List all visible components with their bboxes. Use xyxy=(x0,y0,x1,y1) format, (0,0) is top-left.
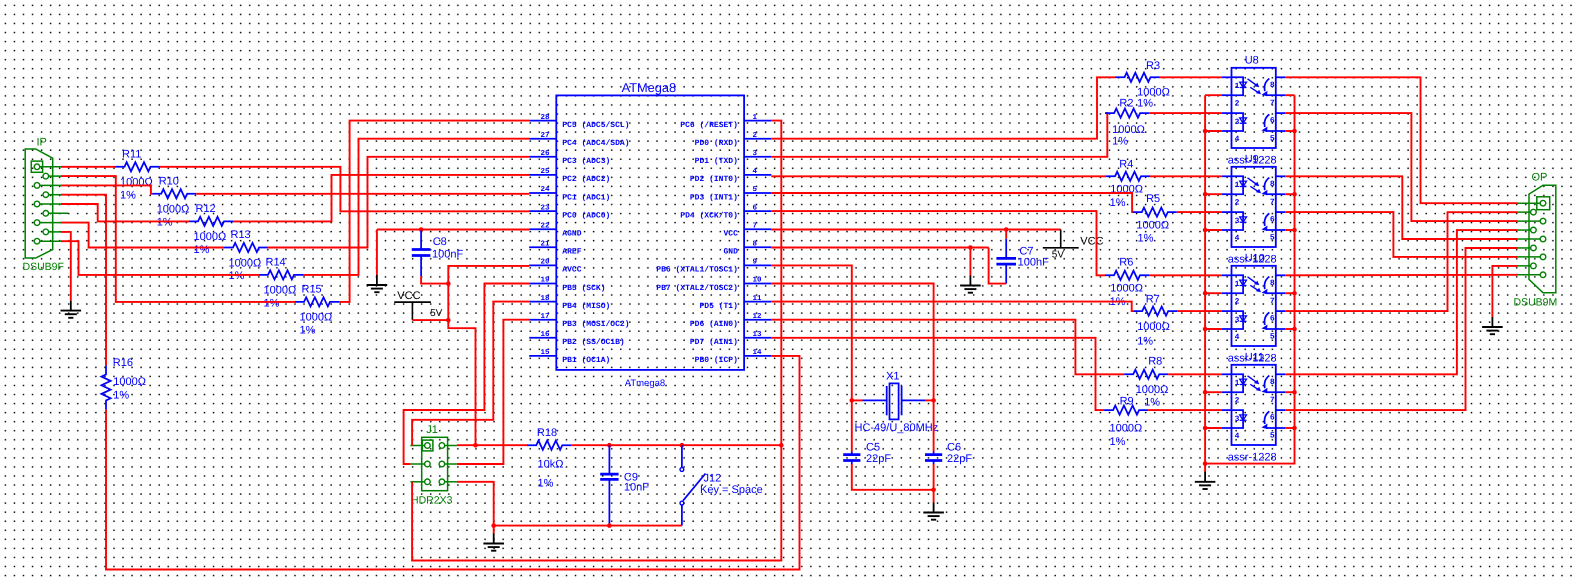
svg-text:8: 8 xyxy=(1270,279,1275,288)
svg-text:7: 7 xyxy=(1270,99,1275,108)
opto-isolator U11 assr-1228 xyxy=(1232,365,1276,445)
svg-text:3: 3 xyxy=(1235,118,1240,127)
wire R18 right to RESET vertical xyxy=(571,444,781,446)
crystal X1 xyxy=(863,399,887,401)
node VCC junction xyxy=(446,318,451,323)
svg-text:AREF: AREF xyxy=(562,248,581,257)
svg-text:IP: IP xyxy=(37,136,47,148)
svg-text:1000Ω: 1000Ω xyxy=(1110,283,1143,295)
resistor R15 xyxy=(295,297,339,306)
wire X1 left down to C5 xyxy=(851,400,853,451)
svg-text:1%: 1% xyxy=(1144,397,1160,409)
svg-text:21: 21 xyxy=(540,240,550,249)
svg-text:PB7 (XTAL2/TOSC2): PB7 (XTAL2/TOSC2) xyxy=(656,284,738,293)
svg-text:1000Ω: 1000Ω xyxy=(1112,124,1145,136)
wire R9 to U11 pin3 xyxy=(1148,409,1222,411)
resistor R2 xyxy=(1105,109,1149,118)
svg-text:11: 11 xyxy=(753,295,763,303)
svg-text:R2: R2 xyxy=(1119,98,1133,110)
wire ground row stub down xyxy=(493,526,495,534)
svg-text:13: 13 xyxy=(753,330,763,339)
resistor R14 xyxy=(259,270,303,279)
svg-text:PC1 (ADC1): PC1 (ADC1) xyxy=(562,193,610,202)
wire ground row under J1/C9/J12 xyxy=(494,525,682,527)
wire R11 to PC0 pin23 xyxy=(160,167,530,212)
op-amp U1 ATMega8 IC body and pins xyxy=(556,95,744,370)
node source bus tap xyxy=(1292,390,1297,395)
svg-text:4: 4 xyxy=(753,168,758,176)
node C7 top junction xyxy=(1004,227,1009,232)
svg-text:PD0 (RXD): PD0 (RXD) xyxy=(695,139,738,148)
svg-text:1%: 1% xyxy=(113,389,129,401)
ground below J1 area xyxy=(493,534,495,544)
svg-text:R4: R4 xyxy=(1119,159,1133,171)
svg-text:16: 16 xyxy=(540,330,550,339)
svg-text:20: 20 xyxy=(540,258,550,267)
wire GND tap down xyxy=(969,248,971,277)
wire VCC stub to junction xyxy=(412,319,448,321)
svg-text:C5: C5 xyxy=(866,442,880,454)
ground below opto bus xyxy=(1204,472,1206,482)
connector J? DSUB9F (IP) xyxy=(25,149,53,258)
svg-text:18: 18 xyxy=(540,294,550,303)
svg-text:PD1 (TXD): PD1 (TXD) xyxy=(695,157,738,166)
svg-text:PB0 (ICP): PB0 (ICP) xyxy=(695,356,738,365)
resistor R11 xyxy=(116,162,160,171)
svg-text:24: 24 xyxy=(540,185,550,194)
svg-text:4: 4 xyxy=(1235,333,1240,342)
wire DSUB pin2 to R15 xyxy=(61,176,295,302)
node cathode bus tap2 xyxy=(1203,228,1208,233)
power VCC 5V left symbol xyxy=(394,301,431,303)
svg-text:PC2 (ADC2): PC2 (ADC2) xyxy=(562,175,610,184)
ground below AGND xyxy=(376,275,378,285)
wire U10 pin6 to DSUB9M pin2 xyxy=(1285,212,1517,311)
svg-text:AVCC: AVCC xyxy=(562,266,581,275)
svg-text:ATMega8: ATMega8 xyxy=(622,80,677,95)
svg-text:26: 26 xyxy=(540,149,550,158)
svg-text:R5: R5 xyxy=(1146,193,1160,205)
svg-text:7: 7 xyxy=(753,222,758,230)
wire PD2 pin4 to R4 xyxy=(771,175,1106,177)
wire R6 to U10 pin1 xyxy=(1149,274,1222,276)
svg-text:22: 22 xyxy=(540,221,550,230)
svg-text:28: 28 xyxy=(540,113,550,122)
svg-text:PD6 (AIN0): PD6 (AIN0) xyxy=(690,320,738,329)
connector DSUB9M (OP) xyxy=(1529,185,1556,293)
wire XTAL1 pin9 to X1 xyxy=(771,265,852,400)
svg-text:5V: 5V xyxy=(430,308,443,319)
wire opto source bus xyxy=(1205,95,1294,463)
resistor R13 xyxy=(224,243,268,252)
svg-text:100nF: 100nF xyxy=(432,249,463,261)
capacitor C6 xyxy=(933,452,935,455)
svg-text:2: 2 xyxy=(1235,199,1240,208)
wire X1 right down to C6 xyxy=(933,400,935,451)
wire R8 to U11 pin1 xyxy=(1168,373,1222,375)
svg-text:5: 5 xyxy=(1270,135,1275,144)
svg-text:PD2 (INT0): PD2 (INT0) xyxy=(690,175,738,184)
svg-text:8: 8 xyxy=(1270,378,1275,387)
connector J1 HDR2X3 xyxy=(422,437,448,490)
svg-text:3: 3 xyxy=(1235,415,1240,424)
svg-text:10: 10 xyxy=(753,276,763,285)
node C9 top junction xyxy=(607,443,612,448)
wire PD3 pin5 to R5 xyxy=(771,193,1133,212)
svg-text:R13: R13 xyxy=(231,229,251,241)
svg-text:PC6 (/RESET): PC6 (/RESET) xyxy=(680,121,738,130)
node AGND-C8 junction xyxy=(419,227,424,232)
svg-text:1000Ω: 1000Ω xyxy=(120,177,153,189)
svg-text:6: 6 xyxy=(1270,414,1275,423)
wire PC6 pin1 to RESET net xyxy=(412,121,781,561)
resistor R6 xyxy=(1105,271,1149,280)
wire R2 to U8 pin3 xyxy=(1149,112,1222,114)
svg-text:PB5 (SCK): PB5 (SCK) xyxy=(562,284,605,293)
svg-text:R6: R6 xyxy=(1119,257,1133,269)
svg-text:15: 15 xyxy=(540,349,550,357)
svg-text:AGND: AGND xyxy=(562,230,581,239)
svg-text:9: 9 xyxy=(753,258,758,267)
capacitor C5 xyxy=(851,452,853,455)
resistor R12 xyxy=(189,217,233,226)
node crystal gnd junction xyxy=(931,488,936,493)
resistor R8 xyxy=(1124,370,1168,379)
wire DSUB9M pin8 to ground xyxy=(1492,266,1517,318)
wire J1 pin1 to PB4 pin18 xyxy=(412,302,529,446)
svg-text:1000Ω: 1000Ω xyxy=(264,285,297,297)
svg-text:4: 4 xyxy=(1235,234,1240,243)
svg-text:1%: 1% xyxy=(1137,335,1153,347)
svg-text:23: 23 xyxy=(540,203,550,212)
wire U10 pin8 to DSUB9M pin9 xyxy=(1285,274,1517,277)
svg-text:10nF: 10nF xyxy=(624,482,649,494)
wire C6 bottom xyxy=(933,464,935,490)
wire R10 to PC1 pin24 xyxy=(196,193,529,195)
wire U8 pin6 to DSUB9M pin3 xyxy=(1285,113,1517,221)
svg-text:PB4 (MISO): PB4 (MISO) xyxy=(562,302,610,311)
wire DSUB pin9 to R14 xyxy=(61,241,259,275)
svg-text:PC5 (ADC5/SCL): PC5 (ADC5/SCL) xyxy=(562,121,629,130)
svg-text:assr-1228: assr-1228 xyxy=(1228,452,1277,464)
svg-text:R15: R15 xyxy=(302,283,322,295)
svg-text:PB6 (XTAL1/TOSC1): PB6 (XTAL1/TOSC1) xyxy=(656,266,738,275)
svg-text:2: 2 xyxy=(753,131,758,140)
svg-text:100nF: 100nF xyxy=(1018,257,1049,269)
svg-text:22pF: 22pF xyxy=(866,453,891,465)
svg-text:5: 5 xyxy=(753,186,758,194)
svg-text:1%: 1% xyxy=(264,297,280,309)
wire GND pin8 row xyxy=(771,247,988,249)
wire R18 left lead xyxy=(476,444,529,446)
svg-text:7: 7 xyxy=(1270,396,1275,405)
svg-text:U9: U9 xyxy=(1245,154,1259,166)
wire DSUB pin5 to R12 xyxy=(61,204,189,221)
ground below DSUB9F xyxy=(70,301,72,311)
svg-text:VCC: VCC xyxy=(1080,236,1103,248)
svg-text:6: 6 xyxy=(1270,315,1275,324)
svg-text:1%: 1% xyxy=(120,189,136,201)
wire J1 pin4 to PB3 pin17 xyxy=(457,320,529,464)
svg-text:U8: U8 xyxy=(1245,55,1259,67)
svg-text:PB1 (OC1A): PB1 (OC1A) xyxy=(562,356,610,365)
svg-text:VCC: VCC xyxy=(397,290,420,302)
wire R12 to PC2 pin25 xyxy=(233,175,529,222)
wire PD5 pin11 to R7 xyxy=(771,302,1133,312)
svg-text:2: 2 xyxy=(1235,298,1240,307)
svg-text:1000Ω: 1000Ω xyxy=(157,204,190,216)
capacitor C8 xyxy=(420,231,422,250)
svg-text:R10: R10 xyxy=(159,175,179,187)
svg-text:J12: J12 xyxy=(704,473,722,485)
wire U9 pin8 to DSUB9M pin5 xyxy=(1285,176,1517,239)
wire PD6 pin12 to R8 xyxy=(771,320,1124,375)
svg-text:R16: R16 xyxy=(113,357,133,369)
svg-text:6: 6 xyxy=(1270,216,1275,225)
svg-text:R3: R3 xyxy=(1146,60,1160,72)
resistor R5 xyxy=(1133,208,1177,217)
svg-text:PC0 (ADC0): PC0 (ADC0) xyxy=(562,211,610,220)
node source bus tap2 xyxy=(1292,129,1297,134)
svg-text:PC3 (ADC3): PC3 (ADC3) xyxy=(562,157,610,166)
svg-text:DSUB9F: DSUB9F xyxy=(23,261,64,273)
svg-text:PB3 (MOSI/OC2): PB3 (MOSI/OC2) xyxy=(562,320,629,329)
wire R15 to PC5 pin28 xyxy=(339,121,529,302)
node ground row left junction xyxy=(491,523,496,528)
svg-text:GND: GND xyxy=(723,248,738,257)
wire J1 pin2 to VCC junction xyxy=(457,444,476,446)
svg-text:1000Ω: 1000Ω xyxy=(1136,220,1169,232)
node source bus tap2 xyxy=(1292,228,1297,233)
svg-text:5: 5 xyxy=(1270,234,1275,243)
svg-text:14: 14 xyxy=(753,349,763,357)
svg-text:1000Ω: 1000Ω xyxy=(1137,321,1170,333)
svg-text:7: 7 xyxy=(1270,297,1275,306)
ground right of ATMega xyxy=(969,276,971,286)
svg-text:1%: 1% xyxy=(1112,136,1128,148)
power VCC 5V right symbol xyxy=(1043,247,1079,249)
svg-text:PC4 (ADC4/SDA): PC4 (ADC4/SDA) xyxy=(562,139,629,148)
node cathode bus tap xyxy=(1203,192,1208,197)
svg-text:J1: J1 xyxy=(426,424,438,436)
svg-text:1%: 1% xyxy=(538,477,554,489)
svg-text:1: 1 xyxy=(1235,379,1240,388)
wire VCC pin7 row xyxy=(771,229,1060,231)
resistor R3 xyxy=(1116,73,1160,82)
svg-text:R8: R8 xyxy=(1148,355,1162,367)
svg-text:27: 27 xyxy=(540,131,549,140)
wire C5 bottom to gnd row xyxy=(852,464,934,490)
wire R14 to PC4 pin27 xyxy=(303,139,529,275)
svg-text:4: 4 xyxy=(1235,135,1240,144)
wire U8 pin8 to DSUB9M pin1 xyxy=(1285,77,1517,203)
svg-text:17: 17 xyxy=(540,313,549,321)
svg-text:5V: 5V xyxy=(1052,250,1065,261)
svg-text:R12: R12 xyxy=(196,203,216,215)
svg-text:3: 3 xyxy=(753,149,758,158)
node cathode bus tap2 xyxy=(1203,426,1208,431)
wire R7 to U10 pin3 xyxy=(1177,310,1222,312)
svg-text:22pF: 22pF xyxy=(947,453,972,465)
node J12 top junction xyxy=(680,443,685,448)
svg-text:6: 6 xyxy=(1270,117,1275,126)
svg-text:1%: 1% xyxy=(300,324,316,336)
svg-text:8: 8 xyxy=(1270,81,1275,90)
svg-text:1000Ω: 1000Ω xyxy=(229,257,262,269)
resistor R18 xyxy=(527,441,571,450)
wire R16 to bottom rail to PB0 pin14 xyxy=(106,356,800,570)
svg-text:25: 25 xyxy=(540,167,550,176)
wire AGND to ground xyxy=(376,230,378,276)
svg-text:PD5 (T1): PD5 (T1) xyxy=(699,302,737,311)
svg-text:1%: 1% xyxy=(1138,232,1154,244)
svg-text:1%: 1% xyxy=(1110,436,1126,448)
svg-text:HC-49/U_80MHz: HC-49/U_80MHz xyxy=(855,422,939,434)
svg-text:1: 1 xyxy=(753,114,758,122)
opto-isolator U8 assr-1228 xyxy=(1232,68,1276,148)
wire C8 bottom to AVCC rail xyxy=(421,276,448,283)
switch J12 xyxy=(681,445,683,467)
node cathode bus tap2 xyxy=(1203,129,1208,134)
svg-text:R18: R18 xyxy=(537,427,557,439)
svg-text:PD7 (AIN1): PD7 (AIN1) xyxy=(690,338,738,347)
capacitor C7 xyxy=(1005,230,1007,239)
wire VCC junction down to R18 row xyxy=(448,320,475,445)
svg-text:Key = Space: Key = Space xyxy=(700,484,763,496)
svg-text:VCC: VCC xyxy=(723,230,738,239)
svg-text:1%: 1% xyxy=(229,270,245,282)
svg-text:1000Ω: 1000Ω xyxy=(194,231,227,243)
wire R3 to U8 pin1 xyxy=(1160,76,1222,78)
svg-text:1: 1 xyxy=(1235,280,1240,289)
wire R13 to PC3 pin26 xyxy=(267,157,529,248)
capacitor C9 xyxy=(608,445,610,474)
svg-text:2: 2 xyxy=(1235,397,1240,406)
svg-text:10kΩ: 10kΩ xyxy=(538,459,564,471)
svg-text:1%: 1% xyxy=(1110,197,1126,209)
svg-text:C7: C7 xyxy=(1019,245,1033,257)
node C8-AVCC junction xyxy=(446,281,451,286)
wire opto cathode bus xyxy=(1204,95,1206,472)
svg-text:1: 1 xyxy=(1235,181,1240,190)
svg-text:R11: R11 xyxy=(122,148,141,160)
wire AGND pin22 row xyxy=(377,229,529,231)
node cathode bus tap xyxy=(1203,291,1208,296)
svg-text:1%: 1% xyxy=(194,244,210,256)
svg-text:R14: R14 xyxy=(266,256,286,268)
svg-text:1000Ω: 1000Ω xyxy=(300,312,333,324)
wire X1 left lead red xyxy=(852,399,863,401)
ground below DSUB9M xyxy=(1491,317,1493,327)
svg-text:ATmega8: ATmega8 xyxy=(625,378,665,389)
wire AVCC pin20 xyxy=(448,266,529,320)
svg-text:1%: 1% xyxy=(1137,98,1153,110)
node source bus tap xyxy=(1292,291,1297,296)
resistor R16 xyxy=(101,365,110,409)
svg-text:R7: R7 xyxy=(1146,294,1160,306)
svg-text:5: 5 xyxy=(1270,432,1275,441)
node X1 right junction xyxy=(931,398,936,403)
wire PD4 pin6 to R6 xyxy=(771,211,1105,275)
svg-text:C8: C8 xyxy=(433,236,447,248)
node ground row C9 junction xyxy=(607,523,612,528)
svg-text:1: 1 xyxy=(1235,82,1240,91)
svg-text:1000Ω: 1000Ω xyxy=(1110,423,1143,435)
svg-text:7: 7 xyxy=(1270,198,1275,207)
svg-text:R9: R9 xyxy=(1120,396,1134,408)
resistor R9 xyxy=(1104,406,1148,415)
wire C7 bottom to GND row xyxy=(989,248,1007,284)
wire DSUB pin7 to R13 xyxy=(61,223,224,248)
wire PD1 pin3 to R2 xyxy=(771,113,1107,157)
svg-text:3: 3 xyxy=(1235,217,1240,226)
wire U11 pin8 to DSUB9M pin4 xyxy=(1285,230,1517,374)
svg-text:OP: OP xyxy=(1532,172,1548,184)
opto-isolator U9 assr-1228 xyxy=(1232,167,1276,247)
node RESET-R18 junction xyxy=(779,443,784,448)
svg-text:X1: X1 xyxy=(886,371,899,383)
svg-text:PD3 (INT1): PD3 (INT1) xyxy=(690,193,738,202)
wire DSUB pin8 to ground xyxy=(61,232,71,301)
svg-text:5: 5 xyxy=(1270,333,1275,342)
svg-text:8: 8 xyxy=(1270,180,1275,189)
wire R5 to U9 pin3 xyxy=(1177,211,1222,213)
node cathode bus tap2 xyxy=(1203,327,1208,332)
svg-text:1000Ω: 1000Ω xyxy=(113,376,146,388)
wire J1 pin3 to PB5 pin19 xyxy=(404,284,530,465)
node source bus tap xyxy=(1292,192,1297,197)
svg-text:HDR2X3: HDR2X3 xyxy=(411,495,453,507)
svg-text:12: 12 xyxy=(753,312,763,321)
wire U9 pin6 to DSUB9M pin7 xyxy=(1285,212,1517,257)
svg-text:C6: C6 xyxy=(947,442,961,454)
svg-text:2: 2 xyxy=(1235,100,1240,109)
resistor R4 xyxy=(1106,172,1150,181)
svg-text:19: 19 xyxy=(540,276,550,285)
svg-text:6: 6 xyxy=(753,203,758,212)
wire DSUB pin3 to R10 xyxy=(61,185,152,193)
wire R4 to U9 pin1 xyxy=(1150,175,1222,177)
svg-text:U11: U11 xyxy=(1245,352,1264,364)
ground below crystal xyxy=(933,503,935,513)
svg-text:PB2 (SS/OC1B): PB2 (SS/OC1B) xyxy=(562,338,624,347)
node X1 left junction xyxy=(850,398,855,403)
wire PD7 pin13 to R9 xyxy=(771,338,1104,410)
wire PD0 pin2 to R3 xyxy=(771,77,1115,138)
wire DSUB pin4 to R16 xyxy=(61,195,106,366)
resistor R7 xyxy=(1133,307,1177,316)
node source bus tap2 xyxy=(1292,426,1297,431)
wire X1 right lead red xyxy=(926,399,934,401)
svg-text:DSUB9M: DSUB9M xyxy=(1514,297,1558,309)
svg-text:1000Ω: 1000Ω xyxy=(1136,384,1169,396)
wire DSUB pin1 to R11 xyxy=(61,166,116,168)
node R18 left junction xyxy=(473,443,478,448)
wire J1 pin6 down to ground row xyxy=(457,482,494,526)
wire U11 pin6 to DSUB9M pin6 xyxy=(1285,248,1517,410)
svg-text:4: 4 xyxy=(1235,432,1240,441)
svg-text:8: 8 xyxy=(753,240,758,249)
svg-text:1000Ω: 1000Ω xyxy=(1137,86,1170,98)
svg-text:U10: U10 xyxy=(1245,253,1265,265)
node GND row junction xyxy=(968,245,973,250)
wire crystal gnd stub xyxy=(933,490,935,503)
svg-text:PD4 (XCK/T0): PD4 (XCK/T0) xyxy=(680,211,738,220)
node cathode bus bottom junction xyxy=(1203,461,1208,466)
node source bus tap2 xyxy=(1292,327,1297,332)
wire XTAL2 pin10 to X1 xyxy=(771,284,933,401)
node cathode bus tap xyxy=(1203,390,1208,395)
